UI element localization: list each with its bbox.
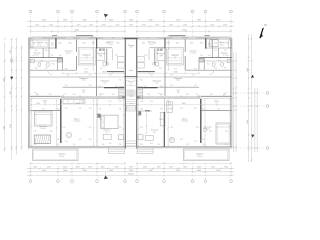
wall chain vL [123,99,124,147]
interior wall 7R [201,95,232,97]
strip steps [126,140,137,142]
dimension line left outer [3,38,5,152]
svg-text:3300: 3300 [157,167,161,169]
column grid bubbles top [29,10,232,37]
sofa L [34,135,50,144]
wardrobe R [229,40,232,47]
svg-text:Кухня: Кухня [128,81,133,83]
window top L3 [103,38,112,39]
svg-text:1800: 1800 [102,72,106,74]
cupboard L1 [117,57,124,63]
interior wall 3R [204,60,232,62]
svg-text:Котельная: Котельная [96,53,105,55]
svg-text:910: 910 [170,139,173,141]
vent L [99,48,102,51]
svg-text:910: 910 [89,75,92,77]
interior wall 22R [164,99,166,147]
svg-text:910: 910 [89,85,92,87]
interior wall 19L [96,38,98,49]
canopy edge R [167,36,230,38]
column grid bubbles bottom [29,162,232,183]
svg-text:3300: 3300 [88,167,92,169]
svg-text:2700: 2700 [35,24,39,26]
svg-text:910: 910 [100,68,103,70]
interior wall 14L [55,38,57,49]
svg-text:Спальня: Спальня [189,50,196,52]
svg-text:910: 910 [150,101,153,103]
svg-text:3300: 3300 [211,167,215,169]
interior dim chain v3 L [93,99,94,146]
window bottom R2 [152,147,163,148]
interior wall 10R [137,97,201,99]
wall chain v2R [229,99,230,147]
exterior wall left [28,38,29,149]
interior wall 17R [184,39,186,52]
svg-text:910: 910 [119,80,122,82]
svg-text:910: 910 [210,94,213,96]
svg-text:910: 910 [34,144,37,146]
window bottom R0 [216,147,228,148]
dimension lines right outer pair [254,88,258,152]
svg-text:N: N [264,23,266,27]
svg-text:910: 910 [109,101,112,103]
svg-text:910: 910 [79,108,82,110]
interior wall 6R [158,86,199,88]
svg-text:910: 910 [223,94,226,96]
svg-text:12.7: 12.7 [105,132,108,134]
svg-text:2400: 2400 [129,20,133,22]
svg-text:910: 910 [115,55,118,57]
svg-text:910: 910 [218,61,221,63]
svg-text:Спальня: Спальня [103,130,110,132]
window bottom R1 [182,147,199,148]
svg-text:910: 910 [79,139,82,141]
svg-text:910: 910 [49,94,52,96]
svg-text:6.3: 6.3 [156,83,158,85]
window top L2 [80,38,89,39]
svg-text:910: 910 [65,108,68,110]
dark wall F lower [163,112,165,147]
svg-text:4.6: 4.6 [82,92,84,94]
svg-text:2700: 2700 [49,24,53,26]
boiler div L [104,49,106,61]
svg-text:910: 910 [100,119,103,121]
svg-text:910: 910 [99,109,102,111]
dimension line left mid [10,38,12,160]
svg-text:Гостиная: Гостиная [204,127,212,129]
svg-text:910: 910 [50,131,53,133]
svg-text:910: 910 [186,94,189,96]
bed top R [210,40,219,47]
svg-text:910: 910 [36,94,39,96]
boiler div R [156,49,158,61]
section flag bottom [104,172,108,179]
svg-text:3.1: 3.1 [130,47,132,49]
svg-text:Тамбур: Тамбур [128,45,134,47]
interior wall 10L [61,97,125,99]
interior wall 16R [198,58,200,71]
interior wall 4R [165,76,232,78]
interior wall 24R [148,49,150,60]
interior wall 19R [164,38,166,49]
dresser L [103,134,111,139]
svg-text:910: 910 [45,50,48,52]
svg-text:3.9: 3.9 [82,80,84,82]
svg-text:5100: 5100 [216,20,220,22]
door arc 2L [48,70,52,74]
micro specks L [33,50,133,146]
interior wall 14R [205,38,207,49]
svg-text:3.9: 3.9 [177,80,179,82]
svg-text:910: 910 [140,109,143,111]
svg-text:Терраса: Терраса [58,154,66,156]
interior wall 9L [61,95,125,97]
interior wall 23L [106,49,108,65]
interior wall 24L [112,49,114,60]
left grid bubble [10,59,13,62]
washer L [31,59,35,63]
svg-text:910: 910 [119,101,122,103]
svg-text:Холл: Холл [214,100,218,102]
svg-text:910: 910 [109,143,112,145]
entry steps L [109,148,125,154]
interior dim chain h1 R [137,72,200,74]
closet L [78,48,95,66]
interior wall 2L [30,69,77,71]
table circle R2 [203,128,207,132]
svg-text:28800: 28800 [128,174,133,176]
svg-text:910: 910 [144,55,147,57]
window top R3 [150,38,159,39]
right section marker A [251,75,254,78]
svg-text:1500: 1500 [36,103,40,105]
svg-text:910: 910 [194,108,197,110]
interior wall 7L [30,95,61,97]
svg-text:910: 910 [99,94,102,96]
window bottom L2 [99,147,110,148]
interior dim chain v3 R [167,99,168,146]
micro dims top L [33,42,120,44]
interior wall 9R [137,95,201,97]
svg-text:910: 910 [170,75,173,77]
boiler wall L [97,47,112,49]
svg-text:900: 900 [167,42,170,44]
kitchen counter L [63,100,85,104]
stair treads R [137,87,143,100]
svg-text:900: 900 [92,42,95,44]
entry steps R [137,148,153,154]
svg-text:910: 910 [63,127,66,129]
boiler wall R [150,47,165,49]
svg-text:910: 910 [170,108,173,110]
svg-text:5600: 5600 [109,20,113,22]
interior wall 18L [75,56,77,70]
interior wall 20L [96,49,98,97]
right section marker B [251,135,254,138]
svg-text:2700: 2700 [155,24,159,26]
svg-text:910: 910 [197,96,200,98]
interior dim chain h2 L [30,103,125,106]
dimension line bottom row0 [30,163,232,165]
svg-text:столовая: столовая [73,121,80,123]
svg-text:910: 910 [35,68,38,70]
exterior wall top [28,38,232,39]
svg-text:910: 910 [192,75,195,77]
svg-text:910: 910 [209,131,212,133]
boiler unit L [103,62,106,66]
exterior wall bottom [28,147,232,148]
svg-text:910: 910 [144,86,147,88]
svg-text:Гардероб: Гардероб [79,78,87,80]
interior dim chain v2 R [204,99,205,146]
dimension line bottom row1 [27,167,234,170]
terrace L [33,149,78,161]
exterior wall right [231,38,232,149]
svg-text:2700: 2700 [77,24,81,26]
canopy edge L [32,36,95,38]
svg-text:Кухня-: Кухня- [182,118,188,120]
svg-text:3200: 3200 [174,72,178,74]
svg-text:6.3: 6.3 [104,83,106,85]
svg-text:910: 910 [180,96,183,98]
corridor wall R [137,71,155,73]
svg-text:910: 910 [194,141,197,143]
svg-text:С/у: С/у [82,90,85,92]
svg-text:910: 910 [89,139,92,141]
svg-text:Ванная: Ванная [221,52,227,54]
svg-text:910: 910 [226,55,229,57]
svg-text:3300: 3300 [169,167,173,169]
svg-text:2400: 2400 [129,170,133,172]
bed lower L [101,115,118,129]
strip dark post R [137,96,140,98]
closet R [166,48,183,66]
interior wall 5R [137,87,157,89]
svg-text:Гардероб: Гардероб [82,55,90,57]
wardrobe L [30,40,33,47]
interior wall 15R [203,58,205,71]
svg-text:900: 900 [214,42,217,44]
wall chain vR [138,99,139,147]
svg-text:3300: 3300 [197,167,201,169]
interior wall 15L [56,58,58,71]
svg-text:Холл: Холл [129,70,133,72]
svg-text:910: 910 [150,143,153,145]
interior wall 13L [48,39,50,57]
interior wall 23R [154,49,156,65]
interior wall 11R [201,109,232,111]
svg-text:900: 900 [142,42,145,44]
svg-text:910: 910 [217,109,220,111]
interior dim chain h1 L [62,72,125,74]
bed living R [216,123,231,144]
window left 1 [28,112,29,126]
window top L0 [32,38,42,39]
bed living L [35,111,53,126]
svg-text:Терраса: Терраса [107,42,115,44]
svg-text:910: 910 [119,109,122,111]
svg-text:2800: 2800 [63,20,67,22]
sink L [47,62,50,66]
svg-text:Спальня: Спальня [65,50,72,52]
window top R1 [189,38,196,39]
svg-text:910: 910 [119,127,122,129]
svg-text:910: 910 [41,61,44,63]
svg-text:910: 910 [159,119,162,121]
table R [169,137,175,143]
corridor wall L [107,71,125,73]
svg-text:Прихожая: Прихожая [153,81,162,83]
interior wall 2R [185,69,232,71]
interior wall 0R [205,47,232,49]
svg-text:910: 910 [224,68,227,70]
svg-text:900: 900 [69,42,72,44]
interior wall 16L [62,58,64,71]
svg-text:С/у: С/у [208,43,211,45]
interior wall 17L [75,39,77,52]
vent R [160,48,163,51]
window top L1 [66,38,73,39]
strip room rect [126,106,135,112]
svg-text:910: 910 [57,144,60,146]
svg-text:910: 910 [157,144,160,146]
wardrobe lower R [160,112,165,126]
north arrow [259,23,266,39]
strip chain [125,85,137,86]
svg-text:Терраса: Терраса [147,42,155,44]
svg-text:3.1: 3.1 [51,45,53,47]
svg-text:Гостиная: Гостиная [39,126,47,128]
svg-text:910: 910 [160,94,163,96]
dresser R [145,136,153,141]
boiler unit R [156,62,159,66]
svg-text:9500: 9500 [75,29,79,31]
svg-text:3200: 3200 [84,72,88,74]
svg-text:910: 910 [130,96,133,98]
svg-text:3300: 3300 [63,167,67,169]
svg-text:Спальня: Спальня [151,130,158,132]
interior wall 21R [200,99,202,143]
svg-text:3.1: 3.1 [208,45,210,47]
interior wall 12R [218,48,220,58]
interior wall 21L [60,99,62,143]
svg-text:900: 900 [59,42,62,44]
sink R [212,62,215,66]
svg-text:910: 910 [115,86,118,88]
micro dims top R [142,42,229,44]
svg-text:4.1: 4.1 [174,57,176,59]
svg-text:5000: 5000 [82,170,86,172]
svg-text:910: 910 [99,86,102,88]
svg-text:2700: 2700 [183,24,187,26]
dimension line top row2 [27,24,234,27]
svg-text:3300: 3300 [143,167,147,169]
svg-text:910: 910 [130,103,133,105]
svg-text:3300: 3300 [129,167,133,169]
svg-text:910: 910 [33,55,36,57]
svg-text:Кухня-: Кухня- [74,118,80,120]
shaft L [58,58,62,62]
svg-text:4.1: 4.1 [85,57,87,59]
svg-text:910: 910 [119,144,122,146]
interior dim chain v1 R [168,40,169,70]
svg-text:900: 900 [117,42,120,44]
svg-text:3300: 3300 [183,167,187,169]
svg-text:910: 910 [73,94,76,96]
svg-text:3300: 3300 [47,167,51,169]
svg-text:3300: 3300 [224,167,228,169]
svg-text:900: 900 [83,42,86,44]
stair center [126,90,136,110]
svg-text:910: 910 [225,131,228,133]
strip dark post L [122,96,125,98]
section flag top [104,14,108,21]
svg-text:910: 910 [140,127,143,129]
interior wall 22L [96,99,98,147]
door arc 4R [196,94,200,98]
strip door gap [126,146,136,148]
door arc 1L [99,93,104,98]
door arc 5R [224,92,228,96]
door arc 5L [34,92,38,96]
svg-text:5500: 5500 [42,170,46,172]
svg-text:9000: 9000 [3,78,5,82]
bedroom wall R [138,110,153,112]
svg-text:910: 910 [85,68,88,70]
svg-text:910: 910 [89,127,92,129]
svg-text:5600: 5600 [109,170,113,172]
svg-text:Ванная: Ванная [34,52,40,54]
svg-text:910: 910 [52,64,55,66]
washer R [227,59,231,63]
svg-text:910: 910 [150,75,153,77]
svg-text:С/у: С/у [177,90,180,92]
svg-text:910: 910 [159,68,162,70]
window top R4 [140,38,148,39]
strip top dark [124,38,137,40]
interior wall 8L [30,97,61,99]
table L [66,132,72,138]
svg-text:4.4: 4.4 [223,55,225,57]
svg-text:910: 910 [140,80,143,82]
wc L [38,62,41,66]
window right 0 [231,49,232,57]
interior wall 12L [42,48,44,58]
svg-text:910: 910 [180,108,183,110]
svg-text:910: 910 [225,144,228,146]
svg-text:5500: 5500 [42,20,46,22]
dimension line bottom row2 [27,170,234,173]
svg-text:5200: 5200 [247,68,249,72]
wall chain v2L [31,99,32,147]
svg-text:910: 910 [62,96,65,98]
door arc 1R [158,93,163,98]
shaft R [199,58,203,62]
svg-text:910: 910 [79,96,82,98]
svg-text:910: 910 [42,109,45,111]
cabinet bottom R [138,135,143,140]
interior wall 1L [30,57,63,59]
svg-text:910: 910 [51,55,54,57]
svg-text:910: 910 [57,139,60,141]
center cross wall [124,76,137,78]
svg-text:5700: 5700 [176,20,180,22]
svg-text:910: 910 [214,68,217,70]
svg-text:910: 910 [45,68,48,70]
micro specks R [140,50,229,146]
svg-text:910: 910 [214,50,217,52]
svg-text:910: 910 [34,131,37,133]
